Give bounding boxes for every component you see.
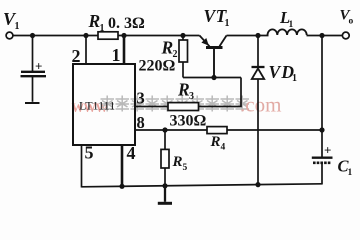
label R1 [88, 11, 105, 34]
input terminal V1 label [3, 9, 20, 32]
wire: output cap branch [321, 36, 323, 158]
svg-text:R: R [177, 80, 190, 100]
svg-text:8: 8 [137, 113, 145, 132]
wire: input cap branch [32, 36, 34, 72]
node: junction dots on top rail [30, 33, 35, 38]
label L1 [279, 8, 294, 30]
svg-text:1: 1 [225, 18, 230, 29]
svg-text:o: o [349, 17, 354, 27]
svg-text:1: 1 [100, 23, 105, 34]
input terminal circle [6, 32, 13, 39]
capacitor C1 (output electrolytic) [312, 143, 333, 163]
svg-text:R: R [88, 11, 101, 31]
svg-text:1: 1 [112, 45, 121, 65]
output terminal Vo label [340, 8, 354, 27]
wire: pin 2 lead [85, 36, 87, 65]
label R3 [177, 80, 194, 103]
svg-text:5: 5 [183, 163, 188, 173]
wire: bottom rail [82, 184, 323, 187]
node: feedback junction dots [162, 127, 167, 132]
svg-text:R: R [210, 134, 221, 150]
resistor R5 [161, 130, 169, 186]
wire: base riser [213, 49, 215, 78]
wire: cap to bottom rail [321, 163, 323, 185]
wire: top rail right segment [227, 35, 269, 37]
wire: pin 4 lead [121, 145, 124, 187]
svg-text:1: 1 [348, 168, 353, 178]
svg-text:4: 4 [127, 143, 136, 163]
label VD1 [269, 62, 298, 84]
ground (input) [25, 102, 40, 104]
resistor R2 with leads [179, 36, 188, 78]
svg-text:R: R [172, 154, 183, 170]
svg-text:220Ω: 220Ω [139, 58, 176, 75]
svg-text:LT1111: LT1111 [79, 99, 115, 113]
label R2 [161, 38, 178, 61]
wire: pin 3 line to R3 and riser to base node [135, 78, 241, 107]
svg-text:R: R [161, 38, 174, 58]
svg-text:1: 1 [15, 21, 20, 32]
resistor R1 [98, 32, 118, 39]
svg-text:+: + [35, 59, 42, 74]
svg-text:+: + [324, 143, 331, 158]
label VT1 [204, 6, 230, 29]
capacitor C2 (input electrolytic) [21, 59, 47, 77]
inductor L1 [268, 29, 307, 35]
watermark [72, 93, 282, 117]
ground (main) [158, 186, 172, 204]
svg-text:1: 1 [292, 73, 297, 84]
output terminal circle [342, 32, 349, 39]
node: base junction dot [211, 75, 216, 80]
svg-text:1: 1 [289, 20, 294, 30]
svg-text:0. 3Ω: 0. 3Ω [108, 15, 145, 32]
wire: pin 8 / feedback line [135, 129, 322, 131]
svg-text:3: 3 [137, 89, 145, 108]
op-amp U1 (regulator IC box) [73, 64, 135, 145]
wire: pin 5 lead [81, 145, 83, 188]
svg-text:.com: .com [240, 93, 281, 117]
resistor R3 [168, 103, 199, 111]
wire: pin 1 lead [123, 36, 126, 65]
wire: cap to ground [32, 76, 34, 102]
wire: top rail left segment [13, 35, 200, 37]
svg-text:4: 4 [221, 143, 226, 153]
svg-text:330Ω: 330Ω [170, 113, 207, 130]
label R5 [172, 154, 188, 173]
wire: base drive line [183, 77, 241, 79]
label R4 [210, 134, 226, 153]
label C1 [338, 157, 353, 179]
transistor VT1 (PNP switch) [200, 36, 227, 48]
resistor R4 [207, 127, 227, 134]
node: bottom rail junction dots [119, 184, 124, 189]
svg-text:5: 5 [85, 143, 94, 163]
diode VD1 [252, 36, 265, 185]
svg-text:3: 3 [189, 91, 194, 102]
